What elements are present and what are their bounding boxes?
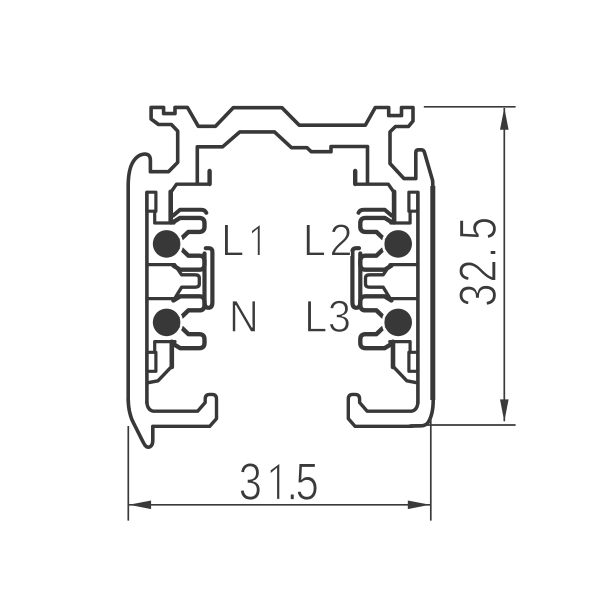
inner top contour [197, 132, 367, 184]
dim text 32.5 [459, 219, 496, 306]
arrow up [500, 108, 509, 130]
ext line bottom right vertical [430, 415, 432, 521]
ext line top right [424, 106, 516, 108]
ext line bottom right horizontal [411, 424, 516, 426]
horizontal dimension line [128, 504, 430, 506]
dimensions [128, 107, 515, 521]
dim text 31.5 [240, 463, 317, 500]
arrow down [500, 399, 509, 421]
left module [147, 171, 217, 426]
arrow right [408, 501, 430, 510]
right outer wall reinforcement [430, 186, 435, 400]
label N [232, 301, 255, 332]
label L1 [225, 224, 261, 255]
arrow left [129, 501, 151, 510]
skirt bottom left toe [128, 399, 153, 447]
outer contour [128, 107, 433, 426]
ext line bottom left vertical [127, 426, 129, 521]
label L2 [306, 224, 350, 255]
vertical dimension line [503, 108, 505, 421]
label L3 [308, 300, 350, 332]
right module (mirrored) [348, 171, 418, 426]
